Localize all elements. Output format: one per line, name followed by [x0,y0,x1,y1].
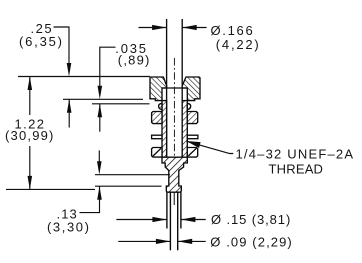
1.22 dim line upper [29,77,31,116]
thread tab row2 thin left [152,135,162,139]
dia .15 dim line right [181,219,206,221]
.035 leader [100,47,116,86]
thread tab row3 left [152,148,162,158]
svg-text:Ø .15 (3,81): Ø .15 (3,81) [211,212,291,227]
svg-text:Ø.166: Ø.166 [211,23,255,38]
thread tab row1 left [152,112,162,124]
extension line flange bottom [63,98,143,100]
center line [173,58,175,156]
arrow dia166 left [182,25,197,30]
pin sleeve right line [180,192,182,228]
thread tab row3 right [187,148,197,158]
arrow dia15 left [181,217,196,222]
body wall left [162,101,167,158]
arrow .035 down [98,86,103,100]
arrow dia09 left [178,239,193,244]
extension line .13 bottom [95,185,162,187]
dia .166 dim line right [182,27,206,29]
arrow .13 down [97,161,102,175]
thread leader arrow [186,141,200,148]
arrow 1.22 up [28,77,33,91]
dia .09 dim line right [178,240,206,242]
arrow .035 up [98,104,103,118]
center line segment below collar [173,192,175,205]
svg-text:(,89): (,89) [118,53,151,68]
dimension lines [6,27,233,241]
arrow .25 down to top face [67,63,72,77]
svg-text:(4,22): (4,22) [216,37,261,52]
dia .15 dim line left [116,219,166,221]
.13 lower arrow shaft + elbow [80,186,100,212]
.035 lower arrow shaft [99,104,101,132]
extension line 1.22 bottom [6,188,95,190]
arrow dia09 right [156,239,171,244]
inner pin left line [169,192,171,250]
svg-text:Ø .09 (2,29): Ø .09 (2,29) [210,234,293,249]
tube left line [166,19,168,157]
pin sleeve left line [166,192,168,228]
.25 leader [54,27,70,63]
body wall right [182,101,187,158]
1.22 dim line lower [29,146,31,189]
extension line .13 top [95,174,170,176]
row3 left hatch line [153,148,161,156]
arrow dia166 right [152,25,167,30]
arrow 1.22 down [28,176,33,190]
dia .09 dim line left [118,240,170,242]
arrow .25 up to flange bottom [67,99,72,113]
svg-text:(6,35): (6,35) [19,34,64,49]
flange right half [182,77,200,101]
svg-text:(3,30): (3,30) [47,219,91,234]
arrowheads [28,25,201,244]
thread tab row1 right [187,112,197,124]
bore bottom V [167,157,183,163]
inner pin right line [177,192,179,250]
extension line shoulder (.035) [92,103,150,105]
dia .166 dim line left [139,27,167,29]
flange left half [150,77,167,101]
svg-text:THREAD: THREAD [269,162,324,177]
.13 upper arrow shaft [98,150,100,161]
thread tab row2 thin right [187,135,198,139]
arrow .13 up [97,186,102,200]
extension line top face [18,76,150,78]
tube right line [181,19,183,157]
bore ledge line [162,87,187,89]
thread runout scallop right [187,103,190,109]
bottom cone and shaft and collar [162,157,187,192]
thread runout scallop left [159,103,162,109]
row3 right hatch line [188,148,196,156]
svg-text:(30,99): (30,99) [5,128,55,143]
thread leader [187,141,234,153]
arrow dia15 right [152,217,167,222]
.25 lower arrow shaft [68,99,70,127]
svg-text:1/4–32 UNEF–2A: 1/4–32 UNEF–2A [236,147,355,162]
